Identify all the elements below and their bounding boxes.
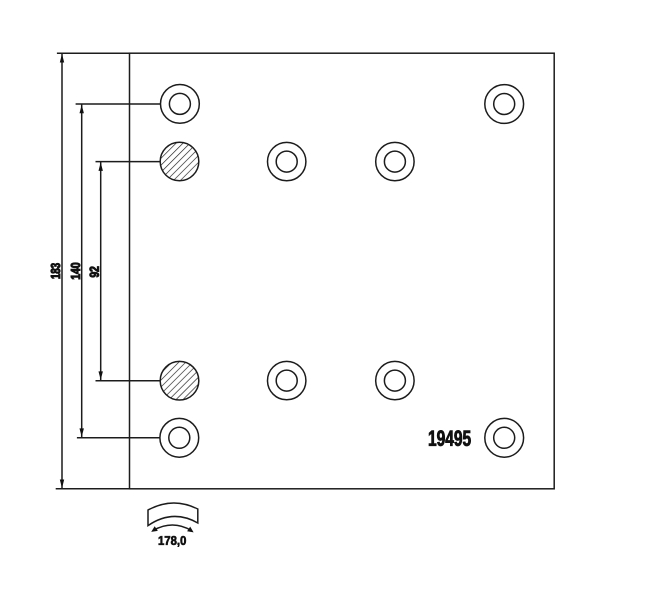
leader line hole row y=161.6 <box>96 161 161 163</box>
arc arrowhead right <box>187 527 194 533</box>
dimension line 140 <box>81 104 83 438</box>
hole H1 ring top-left <box>161 85 200 124</box>
arrow 183 bottom <box>60 480 64 489</box>
dimension line 183 <box>61 53 63 489</box>
hole H2 ring top-right <box>485 85 524 124</box>
width arc arrow <box>154 525 192 531</box>
arrow 183 top <box>60 54 64 63</box>
hole H4 ring row2 mid-right <box>376 142 414 180</box>
width label 178,0 <box>159 536 186 547</box>
hole H8 ring bottom-right <box>485 418 524 457</box>
leader line hole row y=104 <box>76 103 161 105</box>
arrow 140 bottom <box>80 428 84 437</box>
hole H3 ring row2 mid-left <box>268 142 306 180</box>
hole H7 ring bottom-left <box>160 418 199 457</box>
arrow 92 bottom <box>99 371 103 380</box>
hatched hole top <box>160 142 199 181</box>
dimension line 92 <box>100 162 102 381</box>
hole H5 ring row3 mid-left <box>268 361 306 399</box>
lining plate outline <box>130 53 555 489</box>
leader line hole row y=437.7 <box>77 437 160 439</box>
dim label 92 <box>90 267 99 278</box>
arrow 92 top <box>99 162 103 171</box>
dim label 183 <box>51 263 60 278</box>
hatched hole bottom <box>160 361 199 400</box>
dim label 140 <box>71 263 80 279</box>
hole H6 ring row3 mid-right <box>376 361 414 399</box>
part number 19495 <box>429 430 471 446</box>
bottom edge extension line <box>56 488 130 490</box>
arrow 140 top <box>80 105 84 114</box>
top edge extension line <box>57 52 130 54</box>
lining cross-section symbol <box>148 503 198 531</box>
leader line hole row y=380.7 <box>96 380 161 382</box>
arc arrowhead left <box>151 526 158 532</box>
